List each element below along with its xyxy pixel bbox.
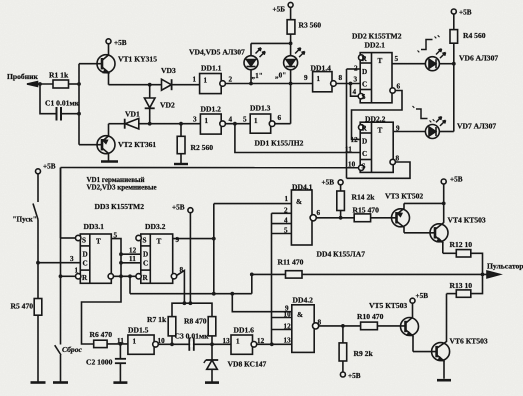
svg-text:S: S [362, 163, 366, 171]
svg-text:R4 560: R4 560 [463, 31, 486, 40]
flip-flop DD2.1 К155ТМ2 [358, 53, 395, 103]
inverter DD1.1 [200, 74, 313, 94]
svg-text:T: T [378, 127, 383, 135]
svg-text:VT3 КТ502: VT3 КТ502 [385, 192, 423, 201]
wire DD3.2 Q̄ pin8 to RC rail [177, 271, 187, 306]
wire DD2.2 S pin10 long net [61, 167, 359, 169]
LED VD4 АЛ307 [244, 43, 265, 83]
transistor VT6 КТ503 [432, 294, 450, 379]
svg-text:T: T [157, 238, 162, 246]
svg-text:6: 6 [397, 83, 401, 91]
svg-text:+5В: +5В [459, 9, 472, 17]
svg-text:&: & [297, 311, 303, 319]
svg-text:DD1.6: DD1.6 [234, 326, 255, 335]
svg-text:DD4.2: DD4.2 [293, 296, 314, 305]
svg-text:4: 4 [284, 217, 288, 225]
svg-text:DD2.1: DD2.1 [365, 41, 386, 50]
svg-text:R1 1k: R1 1k [49, 71, 69, 80]
svg-text:Сброс: Сброс [62, 345, 83, 354]
svg-text:DD3.1: DD3.1 [84, 222, 105, 231]
svg-text:9: 9 [176, 236, 180, 244]
svg-text:12: 12 [129, 247, 137, 255]
LED VD7 АЛ307 [425, 117, 453, 139]
svg-text:R: R [143, 274, 149, 282]
transistor VT1 КТ315 [97, 44, 115, 85]
svg-text:D: D [362, 68, 367, 76]
switch Сброс [55, 345, 61, 382]
svg-text:VD7 АЛ307: VD7 АЛ307 [457, 122, 496, 131]
capacitor C2 1000 [115, 344, 126, 382]
svg-text:1: 1 [133, 338, 137, 346]
svg-text:12: 12 [351, 136, 359, 144]
svg-text:1: 1 [285, 195, 289, 203]
power +5В terminal mid [188, 208, 193, 305]
wire VT5 emitter to VT6 base [413, 351, 437, 353]
svg-text:5: 5 [243, 116, 247, 124]
svg-text:&: & [296, 198, 302, 206]
svg-text:R: R [362, 55, 368, 63]
ground R2 [174, 163, 188, 165]
resistor R2 560 [177, 124, 185, 164]
svg-text:+5Б: +5Б [273, 6, 286, 14]
resistor R12 10 [443, 250, 485, 277]
svg-text:Пробник: Пробник [7, 72, 38, 81]
svg-text:VT4 КТ503: VT4 КТ503 [448, 216, 486, 225]
capacitor C1 0.01мк [57, 107, 80, 121]
zener VD8 КС147 [204, 344, 218, 381]
svg-text:10: 10 [348, 160, 356, 168]
inverter DD1.3 [250, 114, 290, 133]
svg-text:DD1.1: DD1.1 [201, 64, 222, 73]
svg-text:10: 10 [158, 337, 166, 345]
svg-text:1: 1 [236, 338, 240, 346]
svg-text:C: C [362, 150, 367, 158]
wire DD4.1 output to VT3 [316, 216, 396, 220]
svg-text:R: R [362, 125, 368, 133]
svg-text:8: 8 [396, 155, 400, 163]
svg-text:DD3 К155ТМ2: DD3 К155ТМ2 [95, 202, 145, 211]
resistor R10 470 [361, 322, 406, 330]
svg-text:R2 560: R2 560 [191, 143, 214, 152]
svg-text:R3 560: R3 560 [299, 21, 322, 30]
svg-text:9: 9 [304, 74, 308, 82]
svg-text:13: 13 [223, 337, 231, 345]
svg-text:DD1.3: DD1.3 [250, 104, 271, 113]
svg-text:1: 1 [205, 117, 209, 125]
svg-text:VT1 KY315: VT1 KY315 [118, 55, 157, 64]
wire DD4.2 output to VT5 [319, 324, 361, 328]
power +5Б terminal R3 [288, 2, 293, 7]
svg-text:R11 470: R11 470 [278, 258, 304, 267]
svg-text:R13 10: R13 10 [450, 281, 473, 290]
svg-text:3: 3 [354, 76, 358, 84]
wire RC top rail [172, 303, 212, 316]
svg-text:D: D [362, 138, 367, 146]
svg-text:8: 8 [339, 74, 343, 82]
svg-text:DD2 К155ТМ2: DD2 К155ТМ2 [352, 32, 402, 41]
svg-text:6: 6 [317, 209, 321, 217]
svg-text:8: 8 [318, 319, 322, 327]
resistor R9 2k [339, 326, 347, 377]
resistor R7 1k [168, 317, 176, 344]
ground VD8 [205, 381, 219, 384]
svg-text:C3 0.01мк: C3 0.01мк [175, 332, 210, 341]
wire DD3.1 Q pin5 to DD3.2 [82, 239, 141, 344]
svg-text:+5В: +5В [172, 204, 185, 212]
resistor R15 470 [354, 214, 370, 222]
svg-text:C: C [362, 81, 367, 89]
wire VD5 node runner down [290, 84, 292, 124]
svg-text:+5В: +5В [43, 163, 56, 171]
LED VD5 АЛ307 [284, 43, 305, 83]
svg-text:R9 2k: R9 2k [354, 349, 374, 358]
svg-text:T: T [378, 57, 383, 65]
ground C2 [113, 381, 127, 384]
transistor VT3 КТ502 [392, 203, 410, 232]
svg-text:DD2.2: DD2.2 [365, 115, 386, 124]
svg-text:11: 11 [129, 255, 136, 263]
svg-text:1: 1 [75, 267, 79, 275]
power +5В terminal VT1 [106, 39, 111, 44]
transistor VT2 КТ361 [97, 124, 115, 161]
resistor R3 560 [287, 7, 295, 43]
resistor R11 470 [286, 271, 303, 278]
power +5В terminal VT3 VT4 [404, 179, 446, 223]
power +5В terminal Пуск [36, 169, 41, 174]
svg-text:+5В: +5В [114, 39, 127, 47]
ground Пуск rail [31, 381, 46, 384]
flip-flop DD2.2 К155ТМ2 [359, 122, 396, 172]
svg-text:R: R [82, 274, 88, 282]
svg-text:2: 2 [229, 76, 233, 84]
svg-text:C: C [143, 259, 148, 267]
capacitor C3 0.01мк [189, 338, 194, 351]
svg-text:1: 1 [254, 117, 258, 125]
svg-text:10: 10 [284, 311, 292, 319]
svg-text:9: 9 [396, 125, 400, 133]
svg-text:11: 11 [117, 337, 124, 345]
svg-text:5: 5 [114, 232, 118, 240]
svg-text:T: T [96, 238, 101, 246]
svg-text:VD6 АЛ307: VD6 АЛ307 [459, 54, 498, 63]
flip-flop DD3.1 К155ТМ2 [76, 234, 114, 283]
wire y=123.7 lower bus [109, 122, 201, 126]
wire DD2.1 Q pin5 to VD6 [392, 63, 425, 65]
svg-text:VT6 КТ503: VT6 КТ503 [450, 337, 488, 346]
wire input bus vertical [77, 64, 102, 145]
diode VD2 [144, 85, 155, 124]
node Пробник input arrow [27, 82, 53, 87]
svg-text:S: S [362, 93, 366, 101]
inverter DD1.5 [128, 335, 231, 354]
resistor R8 470 [208, 317, 216, 345]
svg-text:8: 8 [180, 266, 184, 274]
resistor R4 560 [450, 9, 458, 43]
svg-text:R8 470: R8 470 [184, 317, 207, 326]
transistor VT5 КТ503 [401, 303, 419, 351]
wire frame corner left [59, 168, 63, 345]
resistor R5 470 [34, 299, 42, 383]
ground VT6 [437, 379, 451, 382]
wire LED cathode rail [452, 43, 456, 131]
ground Сброс rail [53, 381, 68, 384]
svg-text:5: 5 [395, 55, 399, 63]
svg-text:DD1.5: DD1.5 [128, 326, 149, 335]
wire DD4.1 pin1 [214, 203, 292, 205]
wire DD3.1 C input [38, 262, 80, 264]
node waveform mark VD6 [418, 35, 440, 52]
svg-text:R12 10: R12 10 [450, 240, 473, 249]
svg-text:3: 3 [70, 255, 74, 263]
flip-flop DD3.2 К155ТМ2 [136, 234, 177, 283]
wire DD2.1 Q̄ pin6 to DD2.2 D pin12 [352, 91, 403, 140]
wire DD3.2 Q pin9 [128, 204, 292, 312]
nand DD4.1 К155ЛА7 [291, 190, 316, 245]
svg-text:11: 11 [345, 146, 352, 154]
nand DD4.2 К155ЛА7 [292, 305, 319, 353]
svg-text:„1": „1" [252, 72, 263, 80]
svg-text:„0": „0" [275, 72, 286, 80]
svg-text:VD3: VD3 [161, 66, 176, 75]
wire DD2.2 Q pin9 to VD7 [393, 131, 425, 133]
svg-text:C: C [83, 259, 88, 267]
resistor R14 2k [337, 180, 345, 218]
power +5В terminal VT5 [410, 298, 415, 303]
transistor VT4 КТ503 [430, 223, 448, 254]
svg-text:C1 0.01мк: C1 0.01мк [45, 99, 80, 108]
svg-text:4: 4 [353, 88, 357, 96]
svg-text:DD1.4: DD1.4 [311, 64, 332, 73]
wire DD3.1 Q̄ to DD3.2 R [114, 275, 136, 277]
svg-text:1: 1 [193, 76, 197, 84]
inverter DD1.2 [200, 114, 250, 134]
wire LED anode rail [251, 42, 293, 46]
svg-text:+5В: +5В [450, 176, 463, 184]
svg-text:R10 470: R10 470 [357, 312, 384, 321]
diode VD1 [125, 118, 139, 129]
svg-text:R14 2k: R14 2k [352, 192, 376, 201]
svg-text:"Пуск": "Пуск" [13, 216, 37, 224]
inverter DD1.6 [231, 335, 292, 354]
svg-text:VD4,VD5 АЛ307: VD4,VD5 АЛ307 [189, 48, 245, 57]
svg-text:DD3.2: DD3.2 [145, 222, 166, 231]
wire DD2.1 S stub [351, 84, 359, 97]
svg-text:+5В: +5В [348, 372, 361, 380]
wire DD2.2 C pin11 from DD1.2 output [235, 124, 360, 153]
svg-text:6: 6 [278, 114, 282, 122]
svg-text:5: 5 [284, 227, 288, 235]
svg-text:Пульсатор: Пульсатор [487, 262, 523, 271]
resistor R13 10 [447, 274, 483, 297]
svg-text:R5 470: R5 470 [11, 302, 34, 311]
wire C1 branch [38, 82, 56, 114]
svg-text:DD4.1: DD4.1 [292, 183, 313, 192]
wire DD4.1 input bus runner [272, 213, 292, 344]
svg-text:R6 470: R6 470 [90, 330, 113, 339]
wire emitter bus y=84.7 [109, 83, 162, 87]
svg-text:C2 1000: C2 1000 [86, 358, 113, 367]
svg-text:D: D [143, 251, 148, 259]
svg-text:2: 2 [284, 206, 288, 214]
LED VD6 АЛ307 [425, 49, 453, 71]
switch Пуск [33, 174, 40, 299]
wire DD3.1 R input [61, 275, 76, 277]
resistor R6 470 [94, 340, 128, 347]
svg-text:2: 2 [354, 65, 358, 73]
svg-text:VD8 КС147: VD8 КС147 [228, 360, 267, 369]
svg-text:DD1.2: DD1.2 [201, 105, 222, 114]
svg-text:S: S [143, 237, 147, 245]
svg-text:VT2 КТ361: VT2 КТ361 [118, 140, 156, 149]
wire DD3.1 S input [61, 168, 76, 239]
svg-text:D: D [83, 251, 88, 259]
svg-text:3: 3 [193, 116, 197, 124]
svg-text:VD2: VD2 [160, 101, 175, 110]
ground VT2 [101, 160, 118, 163]
svg-text:DD1 К155ЛН2: DD1 К155ЛН2 [255, 139, 304, 148]
svg-text:VT5 КТ503: VT5 КТ503 [369, 301, 407, 310]
svg-text:13: 13 [284, 337, 292, 345]
wire VT3 collector to VT4 base [404, 232, 435, 234]
svg-text:12: 12 [284, 323, 292, 331]
svg-text:DD4 К155ЛА7: DD4 К155ЛА7 [317, 250, 366, 259]
svg-text:VD2,VD3 кремниевые: VD2,VD3 кремниевые [87, 184, 157, 192]
node waveform mark VD7 [413, 106, 435, 122]
svg-text:R15 470: R15 470 [353, 205, 380, 214]
wire output line Пульсатор [250, 271, 500, 294]
svg-text:VD1: VD1 [125, 110, 140, 119]
diode VD3 [162, 79, 201, 90]
wire DD2.1 pin2 D link [347, 69, 361, 178]
svg-text:+5В: +5В [322, 179, 335, 187]
inverter DD1.4 [313, 72, 361, 92]
svg-text:+5В: +5В [416, 292, 429, 300]
resistor R1 1k [53, 80, 79, 88]
svg-text:1: 1 [317, 75, 321, 83]
svg-text:1: 1 [204, 77, 208, 85]
svg-text:S: S [82, 237, 86, 245]
wire DD2.2 Q̄ pin8 to DD2.1 D [347, 162, 411, 178]
svg-text:4: 4 [229, 116, 233, 124]
svg-text:R7 1k: R7 1k [147, 315, 167, 324]
svg-text:12: 12 [257, 337, 265, 345]
